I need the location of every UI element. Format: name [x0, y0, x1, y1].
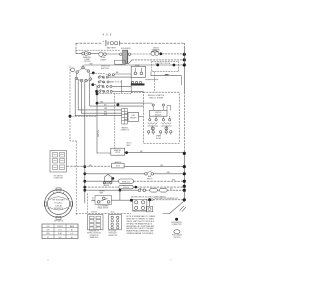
stadium component: [119, 179, 134, 183]
svg-text:DIODE: DIODE: [116, 166, 120, 168]
svg-text:SEAT: SEAT: [148, 175, 152, 178]
wire dashed: [97, 93, 131, 95]
svg-text:KEY SWITCH: KEY SWITCH: [54, 220, 63, 222]
svg-text:OFF: OFF: [47, 230, 50, 232]
svg-text:STARTER: STARTER: [115, 149, 121, 152]
svg-text:RED: RED: [104, 112, 107, 114]
relay block: [133, 199, 147, 210]
svg-text:MODULE: MODULE: [91, 212, 97, 214]
wire clutch row: [84, 64, 183, 66]
wire: [124, 166, 183, 168]
junction dot: [91, 83, 94, 86]
terminal table: [42, 224, 78, 239]
svg-text:B+S+A1+L: B+S+A1+L: [54, 201, 62, 204]
svg-text:RED: RED: [116, 72, 119, 74]
junction dot bus: [183, 198, 186, 201]
wire dashed right: [70, 115, 97, 117]
switch contact row 3: [98, 85, 132, 88]
pto switch: [138, 188, 145, 191]
svg-text:ORN: ORN: [104, 108, 107, 110]
wire: [147, 199, 150, 201]
junction dot bus: [183, 63, 186, 66]
small box component: [146, 206, 152, 212]
svg-text:CONNECTOR: CONNECTOR: [120, 130, 128, 132]
solenoid K1: [120, 50, 131, 63]
terminal block: [50, 151, 67, 173]
switch contact row 2: [98, 77, 131, 92]
svg-text:OF MODULE: OF MODULE: [108, 233, 116, 235]
svg-text:SPARK: SPARK: [156, 135, 161, 138]
svg-text:GROUND CIRCUIT - ALL BLACK WIR: GROUND CIRCUIT - ALL BLACK WIRES CHASSIS: [131, 195, 166, 198]
wire ammeter row: [76, 52, 82, 54]
svg-text:MOTOR: MOTOR: [115, 152, 120, 154]
svg-text:A1: A1: [71, 229, 73, 232]
svg-text:IGNITION: IGNITION: [98, 130, 100, 137]
svg-text:POS: POS: [47, 226, 50, 228]
wire switch vertical 1: [75, 80, 121, 116]
svg-text:B+A1: B+A1: [58, 232, 62, 235]
svg-text:INTERLOCK MODULE: INTERLOCK MODULE: [132, 211, 146, 213]
electric clutch box: [152, 61, 179, 71]
wire row 181.2: [85, 180, 119, 182]
svg-text:FUEL: FUEL: [131, 115, 135, 117]
wire switch vertical 2: [78, 80, 121, 110]
svg-text:RED: RED: [89, 165, 92, 167]
svg-text:WHT: WHT: [104, 114, 107, 116]
svg-text:WIRE: WIRE: [100, 192, 104, 194]
svg-text:INTERLOCK MODULE: INTERLOCK MODULE: [87, 233, 101, 235]
seat switch: [145, 173, 148, 176]
svg-text:SHUTOFF: SHUTOFF: [130, 117, 137, 119]
junction dot: [159, 52, 162, 55]
junction dot bus: [183, 53, 186, 56]
svg-text:AMMETER: AMMETER: [115, 161, 122, 164]
svg-text:IGNITION: IGNITION: [155, 112, 161, 114]
svg-text:ELECTRIC CLUTCH: ELECTRIC CLUTCH: [155, 63, 171, 65]
junction dot bus: [183, 165, 186, 168]
wire switch vertical 2b: [81, 82, 121, 113]
svg-text:CONNECTOR: CONNECTOR: [108, 235, 117, 237]
ignition module box: [150, 110, 168, 116]
ammeter A1: [82, 52, 85, 55]
svg-text:G+M+A2: G+M+A2: [55, 204, 62, 207]
wire solenoid to breaker: [131, 53, 151, 55]
svg-text:CONNECTOR: CONNECTOR: [90, 235, 99, 237]
dashed stub: [76, 49, 120, 51]
fuel solenoid box: [124, 112, 143, 121]
buzzer stub: [107, 173, 109, 176]
wire drop: [119, 190, 121, 200]
svg-text:KEYSWITCH: KEYSWITCH: [54, 208, 63, 210]
svg-text:HOUR METER: HOUR METER: [171, 222, 182, 224]
svg-text:4 . 5 . 6: 4 . 5 . 6: [103, 33, 112, 37]
stadium component 2: [119, 185, 133, 188]
wire dashed: [91, 72, 105, 74]
battery B1: [103, 39, 120, 46]
option ellipse: [174, 230, 180, 234]
wire: [125, 152, 184, 154]
wire row 166: [67, 165, 112, 167]
svg-text:CONNECTOR: CONNECTOR: [54, 177, 63, 179]
svg-text:BROWN: BROWN: [100, 191, 105, 193]
ignition coil 2: [161, 116, 171, 130]
svg-text:ST: ST: [47, 237, 49, 239]
contact row 0: [108, 74, 110, 76]
wire: [97, 102, 143, 104]
box component 2: [112, 163, 124, 168]
junction dot: [135, 186, 138, 189]
wire breaker to bus: [162, 53, 183, 55]
junction dot: [112, 177, 115, 180]
wire: [93, 84, 96, 86]
junction dot bus: [183, 185, 186, 188]
left frame dashed lower: [75, 141, 77, 215]
wire clutch drop dashed: [154, 72, 156, 92]
wire row 190.2: [85, 189, 138, 191]
junction dot: [173, 64, 176, 67]
spark plug terminals: [147, 131, 172, 135]
wire solenoid bottom to bus: [126, 60, 133, 64]
svg-text:MODULE: MODULE: [123, 187, 129, 189]
svg-text:OFF RUN START: OFF RUN START: [52, 198, 65, 201]
circuit breaker CB1: [151, 51, 159, 56]
junction dot bus: [183, 152, 186, 155]
brake switch box: [95, 196, 111, 205]
svg-text:CIRCUIT: CIRCUIT: [57, 226, 63, 228]
svg-text:+: +: [103, 39, 105, 43]
relay box K2: [131, 66, 145, 77]
left frame dashed bottom middle: [86, 194, 88, 214]
wire dashed row: [131, 92, 143, 94]
svg-text:CONNECTOR: CONNECTOR: [172, 224, 183, 226]
svg-text:HARNESS: HARNESS: [121, 127, 127, 130]
wire switch vertical 4: [90, 81, 144, 107]
svg-text:RED: RED: [140, 151, 143, 153]
junction dot: [148, 198, 151, 201]
svg-text:B+S: B+S: [59, 237, 62, 239]
svg-text:INTERLOCK: INTERLOCK: [122, 181, 130, 183]
svg-text:PLUG: PLUG: [111, 212, 115, 214]
svg-text:CLUTCH/BRAKE: CLUTCH/BRAKE: [98, 204, 109, 207]
left bus dots: [83, 165, 86, 168]
oval component 1: [150, 188, 158, 192]
svg-text:BRIGGS & STRATTON: BRIGGS & STRATTON: [148, 94, 164, 97]
connector block right: [109, 215, 122, 230]
ignition switch S1: [71, 65, 92, 82]
svg-text:L+B: L+B: [71, 233, 74, 235]
wire: [117, 103, 119, 106]
connector strip: [122, 109, 128, 125]
module terminals: [152, 104, 154, 106]
hour meter dot: [175, 218, 178, 221]
svg-text:GRN: GRN: [100, 102, 103, 104]
wire hour meter dashed: [153, 199, 183, 201]
speck: [48, 260, 49, 261]
svg-text:REVERSE: REVERSE: [103, 183, 110, 185]
speck: [171, 259, 172, 260]
wire clutch loop: [151, 72, 181, 85]
wire dashed corner down: [75, 43, 77, 50]
junction dot: [69, 115, 72, 118]
svg-text:TWIN CYL. ENGINE: TWIN CYL. ENGINE: [149, 98, 163, 100]
svg-text:BLK: BLK: [93, 197, 95, 200]
wire: [145, 79, 158, 81]
svg-text:A1: A1: [71, 236, 73, 239]
junction dot bus: [183, 58, 186, 61]
svg-text:SWITCH: SWITCH: [101, 68, 109, 70]
ignition coil 1: [148, 116, 158, 130]
wire starter row: [97, 152, 111, 154]
wire: [154, 173, 184, 175]
chassis ground diagonal: [170, 201, 185, 214]
wire battery dashed left: [76, 42, 102, 44]
svg-text:ORN: ORN: [167, 172, 170, 174]
wire switch vertical 3 long bus: [84, 82, 86, 203]
svg-text:BLK: BLK: [104, 104, 107, 106]
svg-text:(OPTION): (OPTION): [174, 237, 181, 239]
junction dot: [96, 92, 99, 95]
frame dashed jog: [70, 116, 76, 141]
svg-text:OWNERS MANUAL FOR DETAILS.: OWNERS MANUAL FOR DETAILS.: [126, 232, 154, 235]
switch contact row 4: [95, 90, 143, 93]
ground bar terminals: [132, 81, 134, 83]
svg-text:CIRCUIT: CIRCUIT: [153, 48, 159, 50]
wire: [111, 199, 131, 201]
svg-text:DELCO: DELCO: [127, 143, 133, 145]
connector block left: [88, 215, 104, 230]
junction dot: [117, 103, 120, 106]
wire: [134, 180, 184, 182]
svg-text:BLUE WIRE TO HOUR METER (OPT): BLUE WIRE TO HOUR METER (OPT): [155, 198, 179, 200]
engine dashed box: [143, 92, 179, 143]
left frame dashed: [69, 66, 71, 116]
notes paragraph: [126, 215, 156, 235]
solenoid base box: [114, 60, 125, 64]
box component 1: [111, 148, 125, 155]
svg-text:SWITCH: SWITCH: [147, 178, 153, 180]
ground bar: [131, 83, 145, 85]
svg-text:PLUG SIDE: PLUG SIDE: [109, 231, 116, 233]
svg-text:REMY: REMY: [127, 145, 131, 147]
wire row 185.2: [85, 186, 119, 188]
key switch connector round: [44, 188, 72, 219]
wire drop: [149, 200, 151, 207]
buzzer: [103, 174, 112, 184]
svg-text:FUEL GAUGE: FUEL GAUGE: [172, 234, 182, 237]
frame line bottom: [76, 212, 131, 214]
svg-text:SOLENOID: SOLENOID: [121, 48, 131, 50]
svg-text:MODULES: MODULES: [155, 114, 162, 116]
wire battery dashed right: [121, 42, 185, 44]
svg-text:KEY SWITCH: KEY SWITCH: [54, 175, 63, 177]
vertical bus x97: [96, 86, 98, 154]
wire dashed vertical: [114, 94, 116, 151]
junction dot: [156, 64, 159, 67]
fuse F1: [99, 52, 103, 56]
junction dot: [92, 72, 95, 75]
junction dot: [96, 102, 99, 105]
junction dot bus: [183, 172, 186, 175]
bus right vertical: [183, 43, 185, 47]
svg-text:MAKE: MAKE: [70, 225, 74, 228]
switch contact row 1: [98, 75, 131, 78]
junction dot: [119, 189, 122, 192]
wire: [106, 53, 119, 55]
svg-text:BATTERY: BATTERY: [107, 46, 117, 49]
svg-text:M+G: M+G: [58, 230, 61, 232]
svg-text:(OPTION): (OPTION): [84, 61, 91, 63]
junction dot: [130, 199, 133, 202]
junction dot bus: [183, 189, 186, 192]
wire: [146, 189, 184, 191]
junction dot bus: [183, 180, 186, 183]
svg-text:WIRE SIDE OF: WIRE SIDE OF: [89, 231, 99, 233]
svg-text:RED: RED: [172, 180, 175, 182]
svg-text:PLUGS: PLUGS: [156, 138, 161, 140]
wire to brake switch: [92, 199, 96, 201]
wire row 173.8 seat switch: [85, 173, 145, 175]
junction dot: [125, 151, 128, 154]
svg-text:RUN: RUN: [46, 233, 49, 235]
oval component 2: [160, 188, 168, 192]
svg-text:20 AMP: 20 AMP: [100, 58, 107, 61]
svg-text:AMMETER: AMMETER: [83, 56, 91, 59]
wire: [91, 53, 99, 55]
